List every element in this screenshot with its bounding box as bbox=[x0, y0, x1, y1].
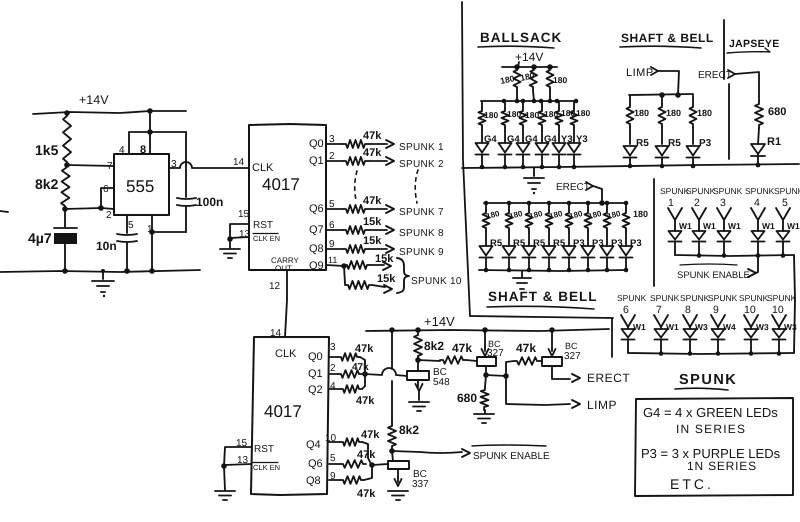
label pin 2 U3 bbox=[330, 363, 336, 374]
svg-text:W1: W1 bbox=[666, 322, 679, 332]
node railB-D bbox=[549, 327, 555, 333]
label BALLSACK title bbox=[480, 30, 562, 45]
svg-text:SPUNK 10: SPUNK 10 bbox=[411, 276, 462, 287]
arrow LIMP in bbox=[651, 67, 658, 75]
svg-text:JAPSEYE: JAPSEYE bbox=[729, 38, 780, 50]
arrow spunk enable bbox=[462, 449, 470, 457]
label +14V supply bbox=[79, 93, 109, 107]
node RST-CLKEN junction U3 bbox=[221, 463, 227, 469]
resistor 15k spunk10b bbox=[345, 273, 396, 289]
node spunk-enable junction bbox=[389, 448, 395, 454]
node bsk bus 4 bbox=[539, 99, 544, 104]
label Q9 U2 bbox=[309, 260, 324, 272]
wire SB mid underline bbox=[487, 306, 594, 309]
label Q1 U3 bbox=[308, 368, 323, 380]
node rail-R1 bbox=[64, 110, 70, 116]
ground right bus bbox=[524, 168, 544, 194]
wire section border bottom SB bbox=[470, 316, 613, 318]
wire Q1 stub U3 bbox=[329, 373, 338, 375]
resistor 47k SPUNK 2 bbox=[343, 147, 382, 165]
svg-text:14: 14 bbox=[233, 157, 245, 168]
resistor 47k SPUNK 7 bbox=[343, 195, 382, 213]
resistor 47k q8 bbox=[340, 476, 376, 500]
label 180 bsk-2 bbox=[507, 109, 521, 119]
label SHAFT-BELL mid title bbox=[488, 289, 598, 304]
wire Q2 stub U3 bbox=[329, 388, 340, 390]
transistor Q3 BC327b box bbox=[542, 357, 562, 366]
node bsk bus 6 bbox=[555, 99, 560, 104]
wire sbm led2 down bbox=[508, 258, 510, 271]
ground U3 bbox=[215, 491, 235, 500]
node bsk gnd 1 bbox=[480, 165, 485, 170]
diode LED R1 bbox=[751, 144, 765, 156]
label 180 sbm-4 bbox=[548, 209, 564, 221]
wire vertical A lower bbox=[391, 381, 393, 423]
wire BALLSACK underline bbox=[478, 46, 554, 48]
wire 8k2 to 47k bbox=[418, 360, 440, 361]
svg-text:CLK: CLK bbox=[252, 162, 274, 174]
node bsk gnd 6 bbox=[572, 165, 577, 170]
svg-text:15k: 15k bbox=[363, 216, 382, 228]
svg-text:1: 1 bbox=[668, 197, 674, 209]
label pin 15 U2 bbox=[238, 209, 250, 220]
diode LED spunk7b bbox=[655, 329, 668, 340]
node gnd tap bbox=[101, 269, 105, 273]
wire dotted continuation right bbox=[415, 170, 418, 203]
label ERECT mid bbox=[556, 182, 590, 193]
label ERECT out bbox=[587, 371, 630, 385]
wire BC327b emitter bbox=[549, 330, 556, 356]
node bsk gnd 3 bbox=[521, 165, 526, 170]
label legend in-series-2 bbox=[687, 459, 757, 473]
label SPUNK 2 bbox=[399, 159, 444, 170]
wire BC548 collector bbox=[417, 360, 419, 371]
svg-text:R1: R1 bbox=[767, 136, 781, 148]
resistor 47k bc327a bbox=[440, 341, 472, 364]
resistor 15k spunk10a bbox=[344, 253, 394, 269]
svg-text:Q6: Q6 bbox=[308, 458, 323, 470]
label 4017 U2 bbox=[262, 175, 300, 194]
diode LED sbm-7 bbox=[601, 246, 614, 258]
node q-group1 junction bbox=[362, 371, 368, 377]
wire spunk10b down bbox=[750, 339, 752, 353]
transistor Q4 BC337 box bbox=[388, 461, 409, 469]
svg-text:BC: BC bbox=[565, 341, 578, 351]
label SPUNK 1 bbox=[399, 142, 444, 153]
label LIMP out bbox=[587, 398, 617, 412]
svg-text:180: 180 bbox=[634, 108, 649, 118]
svg-text:ETC.: ETC. bbox=[670, 476, 714, 492]
label SPUNK 10 bbox=[411, 276, 462, 287]
label pin 9 U2 bbox=[329, 239, 335, 250]
node pin1 junction bbox=[149, 229, 155, 235]
node RST-CLKEN junction U2 bbox=[227, 236, 233, 242]
svg-text:15k: 15k bbox=[377, 273, 396, 285]
node bsk gnd 2 bbox=[503, 165, 508, 170]
label 100n bbox=[196, 195, 223, 209]
svg-text:Q0: Q0 bbox=[309, 138, 324, 150]
label SPUNK10 header b bbox=[739, 293, 769, 316]
wire q8 bend bbox=[364, 466, 372, 480]
diode LED G4-4 bbox=[536, 143, 549, 155]
node sbt gnd 3 bbox=[691, 164, 696, 169]
label SPUNK3 header bbox=[713, 186, 743, 209]
wire RST U3 bbox=[224, 447, 251, 466]
svg-text:SPUNK 2: SPUNK 2 bbox=[399, 159, 444, 170]
wire Q9 down branch bbox=[344, 266, 345, 284]
svg-text:7: 7 bbox=[107, 161, 113, 172]
resistor 180 sbm-7 bbox=[604, 203, 611, 246]
svg-text:ERECT: ERECT bbox=[556, 182, 590, 193]
wire SPUNK title underline bbox=[675, 388, 728, 390]
wire Q4 stub U3 bbox=[329, 441, 340, 443]
ground left rail bbox=[92, 271, 114, 297]
wire pin3 out with hop bbox=[169, 162, 249, 168]
wire BC327a emitter bbox=[482, 330, 489, 356]
svg-text:ERECT: ERECT bbox=[698, 70, 732, 81]
svg-text:Q0: Q0 bbox=[308, 351, 323, 363]
diode LED spunk9b bbox=[712, 329, 725, 340]
diode LED spunk2 bbox=[693, 231, 706, 242]
label SPUNK title bbox=[679, 372, 737, 388]
wire bsk led6 down bbox=[573, 155, 575, 168]
svg-text:SPUNK: SPUNK bbox=[680, 293, 710, 303]
label BC548 bbox=[433, 367, 450, 388]
node bsk bus 0 bbox=[502, 99, 507, 104]
wire spunk8b down bbox=[689, 339, 691, 353]
node sbm gnd 7 bbox=[605, 268, 610, 273]
svg-text:W1: W1 bbox=[679, 221, 692, 231]
node sbm top 1 bbox=[484, 201, 489, 206]
svg-text:W1: W1 bbox=[787, 221, 800, 231]
label pin 11 U2 bbox=[328, 255, 337, 265]
label CLK U3 bbox=[275, 348, 297, 360]
svg-text:4µ7: 4µ7 bbox=[28, 230, 52, 246]
wire stray mark left edge bbox=[0, 211, 8, 212]
svg-text:10: 10 bbox=[744, 304, 756, 316]
label pin 4 U3 bbox=[330, 381, 336, 392]
wire spunk5 fork bbox=[776, 208, 790, 231]
label CLK EN U3 bbox=[253, 463, 280, 473]
svg-text:W1: W1 bbox=[633, 322, 646, 332]
label pin 2 U2 bbox=[329, 151, 335, 162]
label Q8 U3 bbox=[306, 475, 321, 487]
wire spunk1 fork bbox=[668, 208, 682, 231]
svg-text:SPUNK ENABLE: SPUNK ENABLE bbox=[473, 451, 550, 462]
svg-text:15: 15 bbox=[236, 438, 248, 449]
node C1 ground bbox=[62, 268, 68, 274]
wire sbm led1 down bbox=[485, 258, 487, 271]
wire SPUNK 8 arrow bbox=[368, 226, 394, 234]
label 180 sbm-2 bbox=[508, 209, 524, 221]
svg-text:CLK EN: CLK EN bbox=[253, 234, 280, 243]
resistor 180 bsk-1 bbox=[479, 101, 486, 142]
node C2 ground bbox=[124, 268, 130, 274]
wire U2 gnd stub bbox=[229, 239, 231, 248]
diode LED G4-1 bbox=[476, 143, 489, 155]
wire 100n return bbox=[152, 231, 186, 233]
node sbm top 7 bbox=[605, 201, 610, 206]
label 180 sbm-3 bbox=[528, 209, 544, 221]
label SPUNK8 header b bbox=[680, 293, 710, 316]
svg-text:47k: 47k bbox=[452, 341, 472, 355]
svg-text:8: 8 bbox=[685, 304, 691, 316]
svg-text:+14V: +14V bbox=[79, 93, 109, 107]
label Q8 U2 bbox=[309, 243, 324, 255]
svg-text:RST: RST bbox=[254, 444, 274, 455]
label 180 bsk-4 bbox=[544, 109, 558, 119]
label Q4 U3 bbox=[306, 439, 321, 451]
label 180 sbt-3 bbox=[697, 108, 712, 118]
label SPUNK6 header b bbox=[617, 293, 647, 316]
node spunk610 bus 751 bbox=[749, 351, 754, 356]
svg-text:1: 1 bbox=[147, 224, 153, 235]
svg-text:4: 4 bbox=[330, 381, 336, 392]
node bsk bus 7 bbox=[574, 99, 579, 104]
svg-text:SPUNK: SPUNK bbox=[745, 186, 775, 196]
wire base BC337 bbox=[372, 464, 388, 465]
svg-text:SPUNK: SPUNK bbox=[713, 186, 743, 196]
wire spunk10b down bbox=[778, 339, 780, 353]
svg-text:+14V: +14V bbox=[424, 314, 455, 329]
wire pin4-pin8 link bbox=[129, 131, 186, 133]
svg-text:Q7: Q7 bbox=[309, 224, 324, 236]
node sbm gnd 8 bbox=[624, 268, 629, 273]
node sbm erect bbox=[599, 200, 605, 206]
svg-text:W3: W3 bbox=[695, 322, 708, 332]
label 180 sbm-6 bbox=[587, 209, 603, 221]
wire sb-top bus bbox=[629, 94, 693, 95]
label W1 spunk1 bbox=[679, 221, 692, 231]
svg-text:180: 180 bbox=[697, 108, 712, 118]
wire bsk led1 down bbox=[481, 155, 483, 168]
diode LED Y3-6 bbox=[568, 143, 581, 155]
label pin 7 bbox=[107, 161, 113, 172]
label CLK U2 bbox=[252, 162, 274, 174]
wire Q7 stub bbox=[326, 229, 343, 231]
wire CLKEN U2 bbox=[230, 237, 249, 238]
svg-text:Q9: Q9 bbox=[309, 260, 324, 272]
svg-text:IN SERIES: IN SERIES bbox=[676, 422, 746, 436]
diode LED spunk4 bbox=[752, 231, 765, 242]
svg-text:10n: 10n bbox=[96, 239, 117, 253]
svg-text:SPUNK: SPUNK bbox=[686, 186, 716, 196]
node Q9 branch bbox=[341, 263, 347, 269]
wire spunk1 down bbox=[674, 241, 676, 255]
label 10n bbox=[96, 239, 117, 253]
svg-text:W3: W3 bbox=[756, 322, 769, 332]
svg-text:47k: 47k bbox=[363, 195, 382, 207]
node bsk bus 1 bbox=[515, 99, 520, 104]
wire Q6 stub bbox=[326, 208, 343, 210]
wire q2 bend bbox=[362, 375, 365, 389]
svg-text:327: 327 bbox=[564, 351, 581, 362]
arrow ERECT out bbox=[572, 374, 580, 382]
label SPUNK 7 bbox=[399, 207, 444, 218]
label pin 3 bbox=[171, 159, 177, 170]
node bsk feed3 bbox=[547, 64, 553, 70]
wire BC327b collector to ERECT bbox=[552, 366, 570, 379]
label SPUNK7 header b bbox=[650, 293, 680, 316]
svg-text:W3: W3 bbox=[784, 322, 797, 332]
svg-text:SPUNK: SPUNK bbox=[739, 293, 769, 303]
label R5 sbt-2 bbox=[668, 138, 681, 149]
node railB-A bbox=[389, 327, 395, 333]
ground BC337 bbox=[388, 491, 408, 500]
label SHAFT-BELL top title bbox=[621, 31, 714, 45]
wire spunk10b arrow bbox=[372, 285, 392, 293]
node R1-R2 junction pin7 bbox=[64, 162, 70, 168]
resistor 15k SPUNK 9 bbox=[343, 235, 382, 253]
wire spunk3 fork bbox=[717, 208, 731, 231]
wire spunk10b fork bbox=[744, 315, 758, 329]
label W4 spunk9b bbox=[723, 322, 736, 332]
wire spunk2 fork bbox=[692, 208, 706, 231]
svg-text:47k: 47k bbox=[363, 147, 382, 159]
diode LED sbm-1 bbox=[480, 246, 493, 258]
resistor 680 japseye bbox=[755, 101, 786, 128]
svg-text:SPUNK 9: SPUNK 9 bbox=[399, 247, 444, 258]
wire sbm led3 down bbox=[528, 258, 530, 271]
node bsk gnd 4 bbox=[540, 165, 545, 170]
svg-text:SPUNK: SPUNK bbox=[617, 293, 647, 303]
wire section border left bbox=[462, 2, 470, 316]
wire spunk10a arrow bbox=[370, 262, 391, 270]
label SPUNK10 header b bbox=[767, 293, 797, 316]
svg-text:2: 2 bbox=[694, 197, 700, 209]
node spunk15 bus 5 bbox=[781, 253, 786, 258]
wire spunk6b down bbox=[627, 339, 629, 353]
svg-text:4: 4 bbox=[119, 145, 125, 156]
op IC U1 555 box bbox=[114, 154, 169, 215]
wire spunk10b fork bbox=[772, 315, 786, 329]
diode LED spunk1 bbox=[669, 231, 682, 242]
resistor 680 driver bbox=[457, 375, 489, 410]
svg-text:SPUNK: SPUNK bbox=[708, 293, 738, 303]
ground sb-mid bbox=[513, 271, 531, 289]
label 180 sbm-1 bbox=[485, 209, 501, 221]
wire q4 bend bbox=[362, 442, 371, 464]
label SPUNK2 header bbox=[686, 186, 716, 209]
label JAPSEYE title bbox=[729, 38, 780, 50]
wire sb-mid ground bus bbox=[479, 270, 627, 271]
resistor 180 bsk-top3 bbox=[547, 67, 568, 101]
node pin8 link bbox=[147, 129, 153, 135]
wire 47k to BC327a base bbox=[466, 360, 477, 361]
label legend P3 bbox=[641, 446, 781, 461]
svg-text:LIMP: LIMP bbox=[626, 67, 654, 79]
label SPUNK ENABLE right bbox=[677, 264, 750, 281]
wire 100n top bbox=[185, 132, 187, 197]
label R5 sbm-2 bbox=[513, 238, 526, 249]
diode LED sbt-1 bbox=[624, 146, 637, 158]
wire spunk4 fork bbox=[751, 208, 765, 231]
node railB-B bbox=[415, 327, 421, 333]
label +14V ballsack bbox=[515, 50, 543, 64]
svg-text:Q1: Q1 bbox=[308, 368, 323, 380]
wire q0 bend bbox=[360, 357, 365, 374]
diode LED sbm-5 bbox=[563, 246, 576, 258]
svg-text:W1: W1 bbox=[703, 221, 716, 231]
svg-text:14: 14 bbox=[270, 328, 282, 339]
wire divider japseye bbox=[724, 20, 729, 159]
label +14V bottom bbox=[424, 314, 455, 329]
wire base BC548 with hop bbox=[365, 368, 407, 376]
label pin 4 bbox=[119, 145, 125, 156]
label Q6 U2 bbox=[309, 203, 324, 215]
node railB-C bbox=[482, 327, 488, 333]
wire sbm led7 down bbox=[606, 258, 608, 271]
wire pin8 riser bbox=[149, 132, 151, 154]
label P3 sbm-7 bbox=[611, 238, 623, 249]
wire LIMP out bbox=[506, 376, 570, 405]
wire sbm led8 down bbox=[625, 258, 627, 271]
label SPUNK 8 bbox=[399, 228, 444, 239]
svg-text:SPUNK ENABLE: SPUNK ENABLE bbox=[677, 270, 750, 281]
wire pin7 bbox=[67, 165, 114, 166]
ground 680 bbox=[474, 410, 494, 423]
label W1 spunk2 bbox=[703, 221, 716, 231]
svg-text:9: 9 bbox=[713, 304, 719, 316]
svg-text:2: 2 bbox=[106, 210, 112, 221]
wire Q8 stub bbox=[326, 248, 343, 250]
wire Q1 stub bbox=[326, 160, 343, 162]
svg-text:15k: 15k bbox=[363, 235, 382, 247]
resistor 180 sbm-8 bbox=[623, 203, 630, 246]
wire limp feed bbox=[658, 71, 679, 95]
wire carry out to U3 clk bbox=[285, 270, 287, 337]
label legend G4 bbox=[643, 405, 778, 420]
wire +14V rail bottom bbox=[366, 329, 609, 331]
svg-text:12: 12 bbox=[269, 281, 281, 292]
label R1 japseye bbox=[767, 136, 781, 148]
label pin 14 U2 bbox=[233, 157, 245, 168]
node rail-pin8 bbox=[147, 108, 153, 114]
svg-text:327: 327 bbox=[487, 348, 504, 359]
resistor 8k2 bbox=[35, 165, 70, 209]
node bsk gnd 5 bbox=[557, 165, 562, 170]
label P3 sbm-8 bbox=[630, 238, 642, 249]
svg-text:180: 180 bbox=[525, 110, 539, 120]
label W3 spunk10b bbox=[784, 322, 797, 332]
label 4017 U3 bbox=[264, 402, 302, 421]
node sbm gnd 1 bbox=[484, 268, 489, 273]
label Q6 U3 bbox=[308, 458, 323, 470]
svg-text:SPUNK: SPUNK bbox=[774, 186, 800, 196]
wire up to 47k b bbox=[506, 361, 514, 376]
resistor 180 bsk-top2 bbox=[519, 67, 537, 101]
wire spunk4 down bbox=[757, 241, 759, 255]
node sbt gnd 2 bbox=[660, 164, 665, 169]
label Y3 led5 bbox=[561, 134, 573, 145]
node pin2-pin6 junction bbox=[98, 205, 104, 211]
svg-text:10: 10 bbox=[772, 304, 784, 316]
node sbm top 5 bbox=[567, 201, 572, 206]
diode LED sbt-3 bbox=[687, 146, 700, 158]
capacitor C3 100n bbox=[177, 198, 196, 232]
node sbt limp bbox=[675, 92, 681, 98]
label pin 5 U2 bbox=[329, 199, 335, 210]
label Q0 U3 bbox=[308, 351, 323, 363]
wire spunk8b fork bbox=[683, 315, 697, 329]
label SPUNK5 header bbox=[774, 186, 800, 209]
resistor 47k q1 bbox=[338, 362, 369, 378]
wire SPUNK 9 arrow bbox=[368, 245, 394, 253]
label pin 8 bbox=[140, 144, 146, 156]
svg-text:4017: 4017 bbox=[262, 175, 300, 194]
ground BC548 bbox=[409, 402, 429, 411]
svg-text:Q8: Q8 bbox=[309, 243, 324, 255]
